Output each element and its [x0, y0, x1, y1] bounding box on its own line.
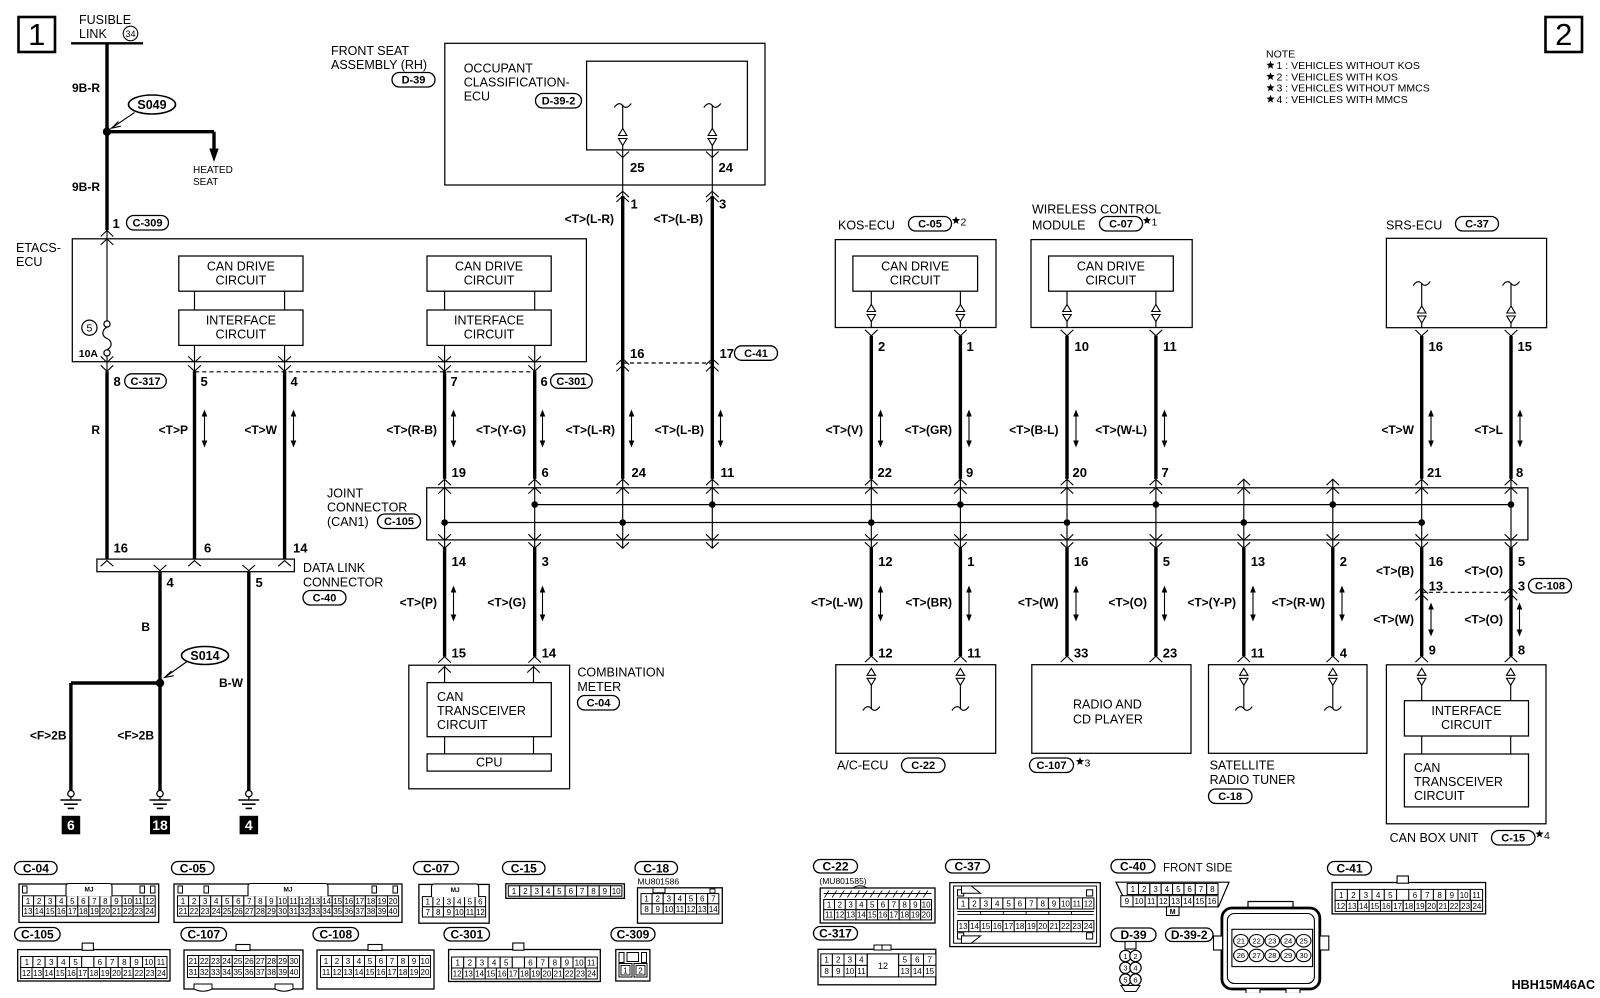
svg-text:5: 5	[468, 898, 473, 907]
svg-text:C-37: C-37	[954, 860, 980, 874]
svg-text:CAN DRIVE: CAN DRIVE	[881, 260, 949, 274]
svg-text:CD PLAYER: CD PLAYER	[1073, 713, 1143, 727]
svg-text:15: 15	[56, 969, 65, 978]
svg-text:9: 9	[836, 967, 841, 976]
svg-text:30: 30	[278, 907, 287, 916]
svg-text:20: 20	[922, 911, 931, 920]
svg-text:<F>2B: <F>2B	[117, 729, 154, 743]
svg-text:24: 24	[1284, 937, 1292, 946]
svg-text:B-W: B-W	[219, 676, 244, 690]
svg-text:14: 14	[475, 969, 484, 978]
svg-text:<T>(W): <T>(W)	[1018, 596, 1059, 610]
svg-text:MJ: MJ	[283, 887, 292, 894]
svg-text:3: 3	[346, 957, 351, 966]
svg-text:25: 25	[1300, 937, 1308, 946]
svg-text:4: 4	[291, 374, 299, 389]
svg-text:11: 11	[1147, 897, 1156, 906]
svg-text:2: 2	[468, 959, 473, 968]
svg-text:MJ: MJ	[451, 887, 460, 894]
svg-text:38: 38	[267, 968, 276, 977]
svg-text:17: 17	[1393, 902, 1402, 911]
svg-text:C-05: C-05	[180, 861, 206, 875]
svg-text:19: 19	[377, 897, 386, 906]
svg-text:21: 21	[1237, 937, 1245, 946]
svg-text:3: 3	[49, 958, 54, 967]
svg-text:3: 3	[1153, 885, 1158, 894]
svg-text:C-108: C-108	[1535, 581, 1565, 593]
svg-text:2: 2	[335, 957, 340, 966]
svg-text:18: 18	[89, 969, 98, 978]
svg-text:20: 20	[1038, 922, 1047, 931]
svg-text:5: 5	[1163, 554, 1170, 569]
svg-text:C-05: C-05	[918, 219, 942, 231]
svg-text:C-15: C-15	[511, 861, 537, 875]
svg-text:19: 19	[1027, 922, 1036, 931]
svg-text:1: 1	[967, 339, 974, 354]
svg-text:<T>(L-R): <T>(L-R)	[566, 423, 615, 437]
svg-text:11: 11	[1073, 899, 1082, 908]
svg-text:4: 4	[245, 817, 253, 833]
svg-text:28: 28	[267, 957, 276, 966]
svg-text:1: 1	[25, 958, 30, 967]
svg-text:CPU: CPU	[476, 756, 502, 770]
svg-text:17: 17	[78, 969, 87, 978]
svg-text:11: 11	[857, 967, 866, 976]
svg-text:6: 6	[1018, 899, 1023, 908]
svg-text:13: 13	[1251, 554, 1265, 569]
svg-text:CIRCUIT: CIRCUIT	[1441, 718, 1492, 732]
svg-text:1: 1	[1131, 885, 1136, 894]
svg-text:8: 8	[902, 901, 907, 910]
svg-text:1: 1	[425, 898, 430, 907]
svg-text:30: 30	[289, 957, 298, 966]
svg-text:4: 4	[357, 957, 362, 966]
svg-text:11: 11	[1251, 646, 1265, 661]
svg-text:14: 14	[1359, 902, 1368, 911]
svg-text:JOINT: JOINT	[327, 487, 363, 501]
svg-text:1: 1	[1123, 952, 1127, 961]
svg-text:8: 8	[1516, 465, 1523, 480]
svg-text:<T>(Y-P): <T>(Y-P)	[1187, 596, 1236, 610]
svg-text:2: 2	[655, 895, 660, 904]
svg-text:CIRCUIT: CIRCUIT	[216, 328, 267, 342]
svg-text:9B-R: 9B-R	[72, 180, 100, 194]
svg-text:14: 14	[44, 969, 53, 978]
svg-text:C-105: C-105	[384, 516, 414, 528]
svg-text:17: 17	[509, 969, 518, 978]
svg-text:11: 11	[134, 897, 143, 906]
svg-text:2: 2	[523, 887, 528, 896]
svg-text:B: B	[141, 620, 150, 634]
svg-text:9: 9	[1125, 897, 1130, 906]
svg-text:10: 10	[1135, 897, 1144, 906]
svg-text:<T>(Y-G): <T>(Y-G)	[476, 423, 526, 437]
svg-text:12: 12	[835, 911, 844, 920]
svg-text:26: 26	[245, 957, 254, 966]
svg-text:3: 3	[447, 898, 452, 907]
svg-text:1: 1	[455, 959, 460, 968]
svg-text:16: 16	[377, 968, 386, 977]
svg-text:(MU801585): (MU801585)	[819, 876, 866, 886]
svg-text:2: 2	[1351, 891, 1356, 900]
svg-text:<T>(R-W): <T>(R-W)	[1272, 596, 1325, 610]
svg-text:3 : VEHICLES WITHOUT MMCS: 3 : VEHICLES WITHOUT MMCS	[1277, 83, 1430, 95]
svg-text:24: 24	[145, 907, 154, 916]
svg-text:23: 23	[211, 957, 220, 966]
svg-text:RADIO TUNER: RADIO TUNER	[1210, 773, 1296, 787]
svg-text:S014: S014	[190, 649, 219, 663]
svg-text:9: 9	[134, 958, 139, 967]
svg-text:10: 10	[612, 887, 621, 896]
svg-text:24: 24	[632, 465, 647, 480]
svg-text:14: 14	[1183, 897, 1192, 906]
svg-text:29: 29	[278, 957, 287, 966]
svg-text:4: 4	[995, 899, 1000, 908]
svg-text:INTERFACE: INTERFACE	[206, 314, 276, 328]
svg-text:9B-R: 9B-R	[72, 81, 100, 95]
svg-text:MODULE: MODULE	[1032, 219, 1085, 233]
svg-text:C-18: C-18	[643, 861, 669, 875]
svg-text:1: 1	[827, 901, 832, 910]
svg-text:17: 17	[1004, 922, 1013, 931]
svg-text:3: 3	[203, 897, 208, 906]
svg-text:18: 18	[1015, 922, 1024, 931]
svg-text:MJ: MJ	[84, 887, 93, 894]
svg-text:13: 13	[959, 922, 968, 931]
svg-text:2: 2	[961, 217, 967, 229]
svg-text:20: 20	[421, 968, 430, 977]
svg-text:CIRCUIT: CIRCUIT	[437, 718, 488, 732]
svg-text:23: 23	[201, 907, 210, 916]
svg-text:11: 11	[825, 911, 834, 920]
svg-text:13: 13	[33, 969, 42, 978]
svg-text:9: 9	[565, 959, 570, 968]
svg-text:15: 15	[1518, 339, 1532, 354]
svg-text:1: 1	[824, 956, 829, 965]
svg-text:3: 3	[1123, 964, 1127, 973]
svg-text:NOTE: NOTE	[1266, 49, 1295, 61]
svg-text:<T>(G): <T>(G)	[487, 596, 526, 610]
svg-text:4: 4	[1165, 885, 1170, 894]
svg-text:6: 6	[1133, 975, 1137, 984]
svg-text:19: 19	[911, 911, 920, 920]
svg-text:1: 1	[324, 957, 329, 966]
svg-text:RADIO AND: RADIO AND	[1073, 698, 1142, 712]
svg-text:D-39-2: D-39-2	[542, 96, 576, 108]
svg-text:18: 18	[1404, 902, 1413, 911]
svg-text:10: 10	[575, 959, 584, 968]
svg-text:1: 1	[28, 17, 45, 52]
svg-text:27: 27	[245, 907, 254, 916]
svg-text:24: 24	[587, 969, 596, 978]
svg-text:10: 10	[278, 897, 287, 906]
svg-text:1: 1	[631, 197, 638, 212]
svg-text:3: 3	[534, 887, 539, 896]
svg-text:C-317: C-317	[819, 927, 852, 941]
svg-text:6: 6	[542, 465, 549, 480]
svg-text:3: 3	[48, 897, 53, 906]
svg-text:22: 22	[878, 465, 892, 480]
svg-text:23: 23	[1163, 646, 1177, 661]
svg-text:23: 23	[134, 907, 143, 916]
svg-text:5: 5	[225, 897, 230, 906]
svg-text:6: 6	[528, 959, 533, 968]
svg-text:15: 15	[333, 897, 342, 906]
svg-text:CAN BOX UNIT: CAN BOX UNIT	[1390, 831, 1479, 845]
svg-text:15: 15	[366, 968, 375, 977]
svg-text:12: 12	[878, 646, 892, 661]
svg-text:26: 26	[234, 907, 243, 916]
svg-text:<T>(B): <T>(B)	[1376, 564, 1414, 578]
svg-text:6: 6	[541, 374, 548, 389]
svg-text:23: 23	[146, 969, 155, 978]
svg-text:5: 5	[557, 887, 562, 896]
svg-text:CAN DRIVE: CAN DRIVE	[207, 260, 275, 274]
svg-text:10: 10	[144, 958, 153, 967]
svg-text:3: 3	[480, 959, 485, 968]
svg-text:21: 21	[179, 907, 188, 916]
svg-text:9: 9	[655, 905, 660, 914]
svg-text:7: 7	[92, 897, 97, 906]
svg-text:4: 4	[1133, 964, 1137, 973]
svg-text:37: 37	[355, 907, 364, 916]
svg-text:14: 14	[452, 554, 467, 569]
svg-text:8: 8	[1210, 885, 1215, 894]
svg-text:<F>2B: <F>2B	[30, 729, 67, 743]
svg-text:9: 9	[269, 897, 274, 906]
svg-text:13: 13	[698, 905, 707, 914]
svg-text:6: 6	[478, 898, 483, 907]
svg-text:18: 18	[79, 907, 88, 916]
svg-text:34: 34	[222, 968, 231, 977]
svg-text:8: 8	[436, 908, 441, 917]
svg-text:4: 4	[167, 575, 175, 590]
svg-text:<T>(B-L): <T>(B-L)	[1009, 423, 1058, 437]
svg-text:20: 20	[542, 969, 551, 978]
svg-text:ETACS-: ETACS-	[16, 241, 61, 255]
svg-text:7: 7	[711, 895, 716, 904]
svg-text:11: 11	[322, 968, 331, 977]
svg-text:13: 13	[846, 911, 855, 920]
svg-text:14: 14	[709, 905, 718, 914]
svg-text:C-07: C-07	[1109, 219, 1133, 231]
svg-text:3: 3	[667, 895, 672, 904]
svg-text:21: 21	[123, 969, 132, 978]
svg-text:8: 8	[591, 887, 596, 896]
svg-text:16: 16	[344, 897, 353, 906]
svg-text:9: 9	[447, 908, 452, 917]
svg-text:3: 3	[848, 956, 853, 965]
svg-text:M: M	[1170, 909, 1176, 916]
svg-text:<T>(O): <T>(O)	[1464, 564, 1503, 578]
svg-text:6: 6	[379, 957, 384, 966]
svg-text:7: 7	[927, 956, 932, 965]
svg-text:13: 13	[311, 897, 320, 906]
svg-text:12: 12	[300, 897, 309, 906]
svg-text:18: 18	[152, 817, 168, 833]
svg-text:10: 10	[421, 957, 430, 966]
svg-text:<T>(W): <T>(W)	[1373, 613, 1414, 627]
svg-text:22: 22	[134, 969, 143, 978]
svg-text:3: 3	[1364, 891, 1369, 900]
svg-text:4: 4	[59, 897, 64, 906]
svg-text:C-18: C-18	[1218, 791, 1242, 803]
svg-text:HBH15M46AC: HBH15M46AC	[1512, 978, 1595, 992]
svg-text:<T>W: <T>W	[1381, 423, 1414, 437]
svg-text:<T>(W-L): <T>(W-L)	[1095, 423, 1147, 437]
svg-text:19: 19	[1416, 902, 1425, 911]
svg-text:C-301: C-301	[450, 928, 483, 942]
svg-text:18: 18	[399, 968, 408, 977]
svg-text:35: 35	[333, 907, 342, 916]
svg-text:<T>W: <T>W	[244, 423, 277, 437]
svg-text:34: 34	[125, 29, 135, 39]
svg-text:CONNECTOR: CONNECTOR	[303, 576, 383, 590]
svg-text:25: 25	[630, 160, 644, 175]
svg-text:SRS-ECU: SRS-ECU	[1386, 219, 1442, 233]
svg-text:<T>(O): <T>(O)	[1464, 613, 1503, 627]
svg-text:14: 14	[857, 911, 866, 920]
svg-text:C-317: C-317	[131, 376, 161, 388]
svg-text:14: 14	[35, 907, 44, 916]
svg-text:10: 10	[922, 901, 931, 910]
svg-text:11: 11	[1163, 339, 1177, 354]
svg-text:3: 3	[542, 554, 549, 569]
svg-text:10: 10	[1460, 891, 1469, 900]
svg-text:7: 7	[1029, 899, 1034, 908]
svg-text:HEATED: HEATED	[193, 165, 233, 176]
svg-text:CAN DRIVE: CAN DRIVE	[455, 260, 523, 274]
svg-text:16: 16	[1074, 554, 1088, 569]
svg-text:12: 12	[333, 968, 342, 977]
svg-text:5: 5	[1006, 899, 1011, 908]
svg-text:5: 5	[368, 957, 373, 966]
svg-text:5: 5	[201, 374, 208, 389]
svg-text:<T>P: <T>P	[159, 423, 188, 437]
svg-text:18: 18	[520, 969, 529, 978]
svg-text:3: 3	[719, 197, 726, 212]
svg-text:23: 23	[1268, 937, 1276, 946]
svg-text:8: 8	[122, 958, 127, 967]
svg-text:A/C-ECU: A/C-ECU	[837, 759, 888, 773]
svg-text:31: 31	[289, 907, 298, 916]
svg-text:19: 19	[101, 969, 110, 978]
svg-text:1: 1	[1339, 891, 1344, 900]
svg-text:7: 7	[580, 887, 585, 896]
svg-text:16: 16	[1207, 897, 1216, 906]
svg-text:12: 12	[22, 969, 31, 978]
svg-text:19: 19	[452, 465, 466, 480]
svg-text:7: 7	[390, 957, 395, 966]
svg-text:16: 16	[879, 911, 888, 920]
svg-text:C-40: C-40	[1120, 860, 1146, 874]
svg-text:14: 14	[913, 967, 922, 976]
svg-text:CIRCUIT: CIRCUIT	[890, 274, 941, 288]
svg-text:24: 24	[212, 907, 221, 916]
svg-text:6: 6	[881, 901, 886, 910]
svg-text:15: 15	[925, 967, 934, 976]
svg-text:10A: 10A	[79, 348, 99, 360]
svg-text:20: 20	[1427, 902, 1436, 911]
svg-text:C-07: C-07	[423, 861, 449, 875]
svg-text:13: 13	[900, 967, 909, 976]
svg-text:C-107: C-107	[1037, 760, 1067, 772]
svg-text:13: 13	[344, 968, 353, 977]
svg-text:5: 5	[1388, 891, 1393, 900]
svg-text:28: 28	[256, 907, 265, 916]
svg-text:6: 6	[700, 895, 705, 904]
svg-text:11: 11	[1472, 891, 1481, 900]
svg-text:22: 22	[200, 957, 209, 966]
svg-text:2: 2	[192, 897, 197, 906]
svg-text:33: 33	[311, 907, 320, 916]
svg-text:4: 4	[457, 898, 462, 907]
svg-text:5: 5	[1123, 975, 1127, 984]
svg-text:5: 5	[903, 956, 908, 965]
svg-text:2: 2	[1340, 554, 1347, 569]
svg-text:5: 5	[1176, 885, 1181, 894]
svg-text:6: 6	[204, 541, 211, 556]
svg-text:16: 16	[1429, 339, 1443, 354]
svg-text:5: 5	[870, 901, 875, 910]
svg-text:LINK: LINK	[79, 27, 107, 41]
svg-text:16: 16	[993, 922, 1002, 931]
svg-text:C-15: C-15	[1501, 833, 1525, 845]
svg-text:<T>(V): <T>(V)	[826, 423, 863, 437]
svg-text:D-39-2: D-39-2	[1171, 928, 1208, 942]
svg-text:13: 13	[1348, 902, 1357, 911]
svg-text:37: 37	[256, 968, 265, 977]
svg-text:4: 4	[1376, 891, 1381, 900]
svg-text:24: 24	[719, 160, 734, 175]
svg-text:C-37: C-37	[1465, 219, 1489, 231]
svg-text:14: 14	[970, 922, 979, 931]
svg-text:COMBINATION: COMBINATION	[577, 666, 664, 680]
svg-text:6: 6	[236, 897, 241, 906]
svg-text:19: 19	[90, 907, 99, 916]
svg-text:29: 29	[267, 907, 276, 916]
svg-text:17: 17	[355, 897, 364, 906]
svg-text:7: 7	[451, 374, 458, 389]
svg-text:9: 9	[603, 887, 608, 896]
svg-text:9: 9	[913, 901, 918, 910]
svg-text:<T>(BR): <T>(BR)	[905, 596, 952, 610]
svg-text:8: 8	[1040, 899, 1045, 908]
svg-text:2: 2	[838, 901, 843, 910]
svg-text:ASSEMBLY (RH): ASSEMBLY (RH)	[331, 58, 427, 72]
svg-text:13: 13	[24, 907, 33, 916]
svg-text:7: 7	[540, 959, 545, 968]
svg-text:7: 7	[247, 897, 252, 906]
svg-text:26: 26	[1237, 951, 1245, 960]
svg-text:3: 3	[1085, 758, 1091, 770]
svg-text:MU801586: MU801586	[638, 877, 680, 887]
svg-text:17: 17	[68, 907, 77, 916]
svg-text:SATELLITE: SATELLITE	[1210, 759, 1275, 773]
svg-text:1: 1	[967, 554, 974, 569]
svg-text:C-105: C-105	[21, 928, 54, 942]
svg-text:<T>(O): <T>(O)	[1108, 596, 1147, 610]
svg-text:14: 14	[322, 897, 331, 906]
svg-text:12: 12	[1336, 902, 1345, 911]
svg-text:33: 33	[211, 968, 220, 977]
svg-text:15: 15	[486, 969, 495, 978]
svg-text:15: 15	[981, 922, 990, 931]
svg-text:20: 20	[1073, 465, 1087, 480]
svg-text:CLASSIFICATION-: CLASSIFICATION-	[464, 76, 570, 90]
svg-text:11: 11	[466, 908, 475, 917]
svg-text:19: 19	[410, 968, 419, 977]
